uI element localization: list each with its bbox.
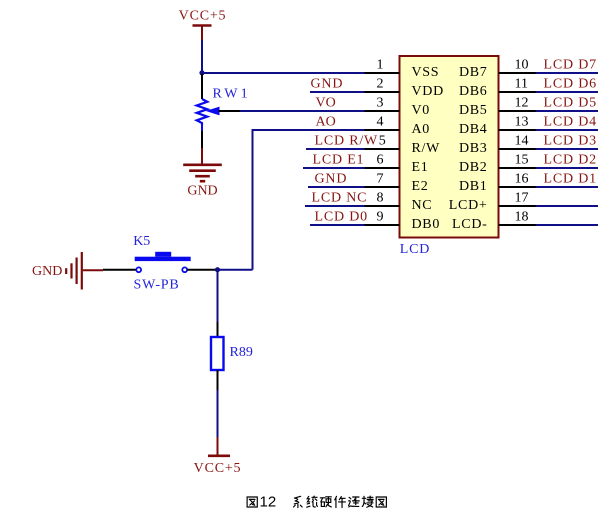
svg-text:R89: R89 bbox=[230, 345, 253, 360]
svg-text:LCD D0: LCD D0 bbox=[315, 210, 368, 225]
resistor RW1 potentiometer bbox=[197, 74, 219, 148]
wire net LCD R/W pin 5 bbox=[306, 148, 365, 150]
wire VCC to junction bbox=[201, 40, 203, 73]
svg-text:16: 16 bbox=[515, 172, 529, 187]
pin 9 DB0 left stub bbox=[365, 224, 400, 226]
svg-text:E1: E1 bbox=[412, 160, 429, 175]
svg-text:LCD D3: LCD D3 bbox=[544, 134, 597, 149]
svg-text:DB7: DB7 bbox=[459, 65, 488, 80]
power VCC+5 bottom bbox=[194, 437, 242, 476]
svg-text:12: 12 bbox=[260, 494, 277, 511]
svg-text:10: 10 bbox=[515, 58, 529, 73]
svg-text:VDD: VDD bbox=[412, 84, 444, 99]
svg-text:GND: GND bbox=[187, 184, 217, 199]
svg-text:4: 4 bbox=[377, 115, 384, 130]
svg-text:17: 17 bbox=[515, 191, 529, 206]
svg-text:RW1: RW1 bbox=[213, 87, 251, 102]
svg-text:LCD D7: LCD D7 bbox=[544, 58, 597, 73]
svg-text:LCD D1: LCD D1 bbox=[544, 172, 597, 187]
svg-text:LCD D4: LCD D4 bbox=[544, 115, 597, 130]
pin 8 NC left stub bbox=[365, 205, 400, 207]
svg-text:13: 13 bbox=[515, 115, 529, 130]
pin 1 VSS left stub bbox=[365, 72, 400, 74]
svg-text:7: 7 bbox=[377, 172, 384, 187]
wire net right pin 13 bbox=[536, 129, 598, 131]
pin 3 V0 left stub bbox=[365, 110, 400, 112]
pin 7 E2 left stub bbox=[365, 186, 400, 188]
svg-text:LCD D2: LCD D2 bbox=[544, 153, 597, 168]
pin 12 DB5 right stub bbox=[499, 110, 537, 112]
svg-text:DB6: DB6 bbox=[459, 84, 488, 99]
svg-text:DB3: DB3 bbox=[459, 141, 488, 156]
svg-text:14: 14 bbox=[515, 134, 529, 149]
svg-text:LCD E1: LCD E1 bbox=[313, 153, 365, 168]
svg-text:DB0: DB0 bbox=[412, 217, 441, 232]
wire net LCD NC pin 8 bbox=[305, 205, 365, 207]
op-amp U1 LCD chip body bbox=[400, 56, 499, 238]
svg-text:K5: K5 bbox=[133, 234, 150, 249]
wire net right pin 10 bbox=[536, 72, 598, 74]
svg-text:12: 12 bbox=[515, 96, 529, 111]
wire R89 to VCC bbox=[217, 370, 219, 437]
svg-text:A0: A0 bbox=[412, 122, 431, 137]
svg-text:AO: AO bbox=[316, 115, 336, 130]
svg-text:V0: V0 bbox=[412, 103, 431, 118]
pin 10 DB7 right stub bbox=[499, 72, 537, 74]
resistor R89 bbox=[211, 337, 224, 370]
svg-text:VSS: VSS bbox=[412, 65, 440, 80]
pin 11 DB6 right stub bbox=[499, 91, 537, 93]
svg-text:LCD R/W: LCD R/W bbox=[315, 134, 379, 149]
wire junction to A0 riser bbox=[218, 269, 253, 271]
svg-text:8: 8 bbox=[377, 191, 384, 206]
svg-text:6: 6 bbox=[377, 153, 384, 168]
svg-text:1: 1 bbox=[377, 58, 384, 73]
node junction VCC/RW1/pin1 bbox=[199, 70, 204, 75]
svg-text:GND: GND bbox=[32, 264, 62, 279]
svg-text:NC: NC bbox=[412, 198, 433, 213]
wire net LCD E1 pin 6 bbox=[303, 167, 365, 169]
pin 14 DB3 right stub bbox=[499, 148, 537, 150]
svg-text:DB2: DB2 bbox=[459, 160, 488, 175]
svg-text:18: 18 bbox=[515, 210, 529, 225]
svg-text:LCD NC: LCD NC bbox=[312, 191, 368, 206]
wire net right pin 16 bbox=[536, 186, 598, 188]
svg-text:LCD D6: LCD D6 bbox=[544, 77, 597, 92]
svg-text:15: 15 bbox=[515, 153, 529, 168]
wire net right pin 12 bbox=[536, 110, 598, 112]
wire A0 net vertical from switch node bbox=[252, 129, 365, 270]
wire net right pin 18 bbox=[536, 224, 598, 226]
ground GND left of switch bbox=[32, 252, 103, 290]
wire net right pin 11 bbox=[536, 91, 598, 93]
svg-text:VCC+5: VCC+5 bbox=[194, 461, 242, 476]
svg-text:LCD-: LCD- bbox=[452, 217, 487, 232]
svg-text:R/W: R/W bbox=[412, 141, 441, 156]
wire junction down to R89 bbox=[217, 270, 219, 337]
svg-text:LCD: LCD bbox=[400, 242, 430, 257]
pin 15 DB2 right stub bbox=[499, 167, 537, 169]
pin 16 DB1 right stub bbox=[499, 186, 537, 188]
svg-text:LCD D5: LCD D5 bbox=[544, 96, 597, 111]
wire junction to pin 1 VSS bbox=[202, 72, 365, 74]
wire net right pin 14 bbox=[536, 148, 598, 150]
pin 5 R/W left stub bbox=[365, 148, 400, 150]
svg-text:5: 5 bbox=[379, 134, 386, 149]
svg-text:VCC+5: VCC+5 bbox=[179, 9, 227, 24]
transistor K5 switch SW-PB bbox=[135, 252, 191, 272]
node junction switch/R89/A0 bbox=[215, 267, 220, 272]
svg-text:SW-PB: SW-PB bbox=[134, 278, 180, 293]
wire RW1 wiper to pin 3 V0 bbox=[219, 110, 365, 112]
caption figure 12 title bbox=[247, 494, 386, 511]
svg-text:9: 9 bbox=[377, 210, 384, 225]
wire net right pin 17 bbox=[536, 205, 598, 207]
svg-text:3: 3 bbox=[377, 96, 384, 111]
svg-text:VO: VO bbox=[316, 96, 336, 111]
svg-text:DB1: DB1 bbox=[459, 179, 488, 194]
svg-text:DB4: DB4 bbox=[459, 122, 488, 137]
pin 2 VDD left stub bbox=[365, 91, 400, 93]
pin 6 E1 left stub bbox=[365, 167, 400, 169]
svg-text:E2: E2 bbox=[412, 179, 429, 194]
wire GND to switch K5 bbox=[103, 269, 136, 271]
pin 18 LCD- right stub bbox=[499, 224, 537, 226]
pin 13 DB4 right stub bbox=[499, 129, 537, 131]
svg-text:2: 2 bbox=[377, 77, 384, 92]
pin 4 A0 left stub bbox=[365, 129, 400, 131]
svg-text:GND: GND bbox=[311, 77, 344, 92]
svg-text:DB5: DB5 bbox=[459, 103, 488, 118]
svg-text:GND: GND bbox=[315, 172, 348, 187]
wire net GND pin 7 bbox=[308, 186, 365, 188]
svg-text:LCD+: LCD+ bbox=[449, 198, 488, 213]
wire net GND pin 2 bbox=[310, 91, 365, 93]
wire switch to junction bbox=[187, 269, 217, 271]
wire net right pin 15 bbox=[536, 167, 598, 169]
pin 17 LCD+ right stub bbox=[499, 205, 537, 207]
svg-text:11: 11 bbox=[515, 77, 528, 92]
ground GND below RW1 bbox=[183, 148, 222, 199]
power VCC+5 top bbox=[179, 9, 227, 41]
wire net LCD D0 pin 9 bbox=[310, 224, 365, 226]
